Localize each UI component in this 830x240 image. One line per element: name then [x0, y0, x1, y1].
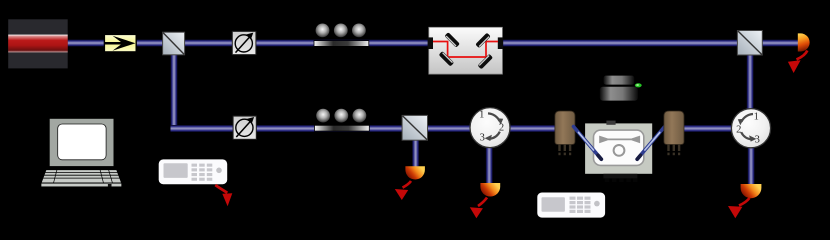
translation stage: [585, 121, 652, 182]
photodiode PD3: [480, 183, 500, 197]
free-space beam right: [637, 127, 665, 160]
fiber coupler F1: [555, 111, 575, 155]
svg-text:3: 3: [755, 134, 760, 145]
circulator C2: [731, 109, 770, 148]
polarization controller PC2: [315, 109, 370, 131]
beamsplitter BS2: [737, 31, 762, 56]
circulator C1: [470, 108, 510, 148]
photodiode PD1: [798, 33, 810, 51]
isolator: [104, 34, 136, 52]
signal arrow PD3: [470, 198, 487, 219]
attenuator A1: [232, 31, 256, 54]
laser driver stack: [600, 76, 642, 101]
svg-text:3: 3: [480, 132, 485, 143]
svg-text:1: 1: [479, 110, 484, 121]
svg-text:1: 1: [754, 111, 759, 122]
beamsplitter BS1: [163, 32, 185, 55]
wire row1 laser to detector: [66, 40, 801, 47]
signal arrow PD4: [728, 198, 750, 218]
free-space delay line: [428, 27, 504, 74]
signal arrow instrument 1: [215, 185, 232, 206]
wire row2 left section: [171, 125, 566, 132]
fiber coupler F2: [664, 111, 684, 155]
instrument signal generator 1: [159, 159, 228, 184]
wire vertical BS3 to detector PD2: [412, 138, 419, 167]
laser: [8, 19, 67, 68]
free-space beam left: [574, 127, 602, 160]
wire vertical circulator C1 to detector PD3: [486, 143, 493, 183]
polarization controller PC1: [314, 24, 369, 47]
wire row2 right section: [674, 125, 734, 132]
wire vertical BS2 to circulator C2: [747, 52, 754, 117]
wire vertical BS1 down: [171, 50, 178, 132]
signal arrow PD1: [788, 51, 807, 74]
wire vertical circulator C2 to detector PD4: [748, 145, 755, 184]
signal arrow PD2: [395, 181, 411, 200]
photodiode PD2: [405, 166, 425, 179]
instrument signal generator 2: [537, 193, 605, 218]
computer: [41, 118, 122, 187]
photodiode PD4: [741, 184, 762, 198]
svg-text:2: 2: [736, 125, 741, 136]
beamsplitter BS3: [402, 115, 427, 140]
attenuator A2: [233, 116, 256, 139]
